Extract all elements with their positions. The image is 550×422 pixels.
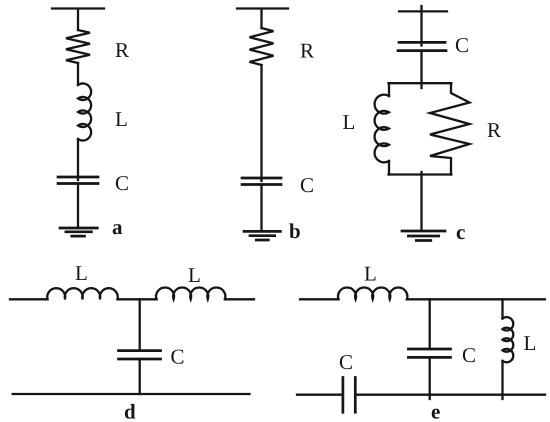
- resistor R (a): [66, 30, 90, 63]
- inductor L2 (d): [156, 287, 225, 299]
- terminal top c: [399, 6, 447, 46]
- node bottom bar (c): [389, 173, 452, 175]
- ground a: [60, 228, 97, 236]
- svg-text:L: L: [364, 262, 377, 286]
- svg-text:C: C: [115, 171, 129, 195]
- ground b: [244, 231, 280, 240]
- terminal top a: [52, 9, 104, 31]
- wire stub left bottom: [388, 161, 390, 175]
- resistor R (b): [250, 28, 274, 65]
- resistor R (c): [430, 83, 470, 174]
- wire: [501, 361, 503, 399]
- wire shunt branch e: [429, 299, 431, 349]
- svg-text:b: b: [289, 219, 301, 243]
- bottom line left e: [297, 394, 343, 396]
- wire top-left d: [10, 298, 48, 300]
- svg-text:L: L: [524, 331, 537, 355]
- svg-text:C: C: [339, 350, 353, 374]
- inductor L (a): [78, 83, 91, 140]
- svg-text:c: c: [456, 220, 465, 244]
- bottom line right e: [355, 394, 545, 396]
- wire: [77, 139, 79, 180]
- wire stub left top: [388, 83, 390, 96]
- svg-text:C: C: [462, 343, 476, 367]
- wire: [420, 51, 422, 88]
- capacitor C (b): [242, 178, 281, 185]
- wire: [260, 185, 262, 232]
- svg-text:C: C: [171, 345, 185, 369]
- capacitor C (a): [58, 177, 98, 184]
- wire: [77, 63, 79, 85]
- wire: [139, 359, 141, 394]
- svg-text:C: C: [455, 33, 469, 57]
- svg-text:a: a: [112, 215, 123, 239]
- wire inductor branch e: [501, 299, 503, 318]
- wire top-left e: [300, 298, 339, 300]
- inductor L1 (d): [47, 288, 118, 299]
- svg-text:R: R: [487, 118, 501, 142]
- capacitor C (d): [119, 351, 161, 359]
- capacitor C (c): [398, 42, 446, 50]
- svg-text:R: R: [115, 38, 129, 62]
- terminal top b: [237, 9, 288, 29]
- svg-text:L: L: [115, 107, 128, 131]
- inductor L (c): [375, 95, 389, 163]
- wire top-right d: [225, 298, 254, 300]
- wire top-mid d: [118, 298, 157, 300]
- svg-text:R: R: [300, 39, 314, 63]
- wire: [429, 357, 431, 399]
- node top bar (c): [389, 82, 452, 84]
- inductor L1 (e): [338, 287, 407, 299]
- bottom line d: [13, 393, 250, 395]
- svg-text:e: e: [431, 400, 440, 422]
- svg-text:L: L: [188, 263, 201, 287]
- svg-text:L: L: [343, 110, 356, 134]
- wire center tap d: [139, 299, 141, 350]
- inductor L2 (e): [503, 317, 514, 362]
- capacitor C series (e): [343, 378, 355, 413]
- wire: [260, 65, 262, 181]
- wire: [420, 172, 422, 231]
- wire: [77, 184, 79, 229]
- svg-text:C: C: [300, 173, 314, 197]
- svg-text:d: d: [124, 400, 136, 422]
- ground c: [402, 231, 445, 241]
- wire top-right e: [407, 298, 545, 300]
- svg-text:L: L: [75, 261, 88, 285]
- capacitor C shunt (e): [408, 349, 450, 357]
